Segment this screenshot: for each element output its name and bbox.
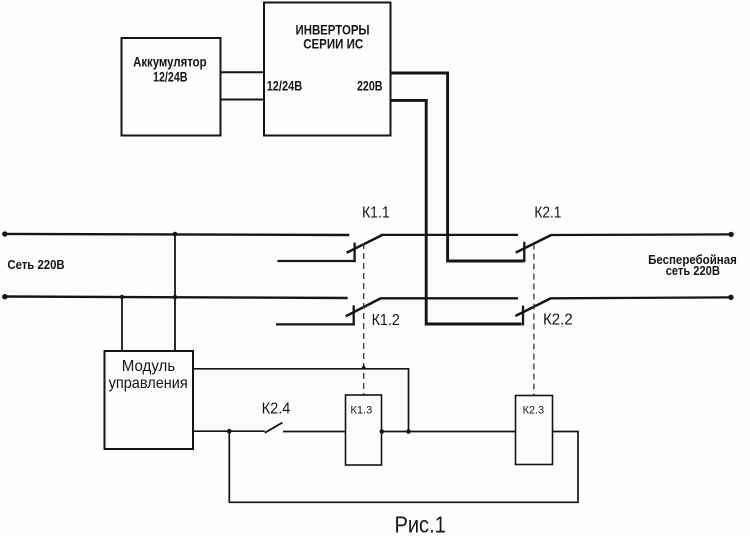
contact K2.2 moving arm xyxy=(515,298,550,316)
svg-text:Модуль: Модуль xyxy=(122,358,175,375)
wire net line bottom (Сеть 220В neutral) xyxy=(5,297,348,299)
node terminal right top xyxy=(728,232,733,237)
svg-text:Рис.1: Рис.1 xyxy=(395,511,446,536)
wire K2.1 output to right terminal xyxy=(551,233,731,236)
wire K1.1 output to K2.1 input xyxy=(381,234,519,236)
contact K2.1 moving arm xyxy=(516,235,552,253)
wire battery to inverter (top) xyxy=(221,71,265,73)
relay coil K1.3 xyxy=(346,395,382,465)
switch K2.4 arm xyxy=(265,423,283,433)
node arrowhead at dashed link crossing control wire xyxy=(361,365,367,370)
svg-text:К2.2: К2.2 xyxy=(543,311,573,328)
node junction K2.4 line to bottom loop xyxy=(227,429,232,434)
node junction at coil line xyxy=(406,429,411,434)
wire K2.4 to coil K1.3 xyxy=(283,431,346,433)
relay coil K2.3 xyxy=(516,396,553,465)
contact K1.2 lower fixed terminal xyxy=(276,305,355,325)
wire K1.2 output to K2.2 input xyxy=(381,297,519,299)
dashed mechanical link K2 contacts to coil K2.3 xyxy=(533,244,535,396)
node junction bottom line wire1 xyxy=(120,295,124,299)
svg-text:К1.1: К1.1 xyxy=(362,205,390,222)
module box Модуль управления xyxy=(105,351,194,449)
wire K2.2 output to right terminal xyxy=(551,296,732,299)
svg-text:К2.1: К2.1 xyxy=(534,205,561,222)
dashed mechanical link K1 contacts to coil K1.3 xyxy=(363,243,365,395)
contact K2.1 notch on thick feed xyxy=(523,242,525,262)
svg-text:сеть 220В: сеть 220В xyxy=(666,263,720,278)
svg-text:СЕРИИ ИС: СЕРИИ ИС xyxy=(303,37,363,52)
node junction at K1.3 right pin xyxy=(380,429,385,434)
battery box Аккумулятор 12/24В xyxy=(122,38,221,136)
contact K1.1 moving arm xyxy=(347,235,383,253)
svg-text:К1.2: К1.2 xyxy=(372,312,400,329)
node terminal left top xyxy=(2,231,7,236)
wire inverter 220V output 1 (thick, to K2.1) xyxy=(391,73,524,261)
svg-text:220В: 220В xyxy=(357,78,383,93)
node terminal left bottom xyxy=(2,294,7,299)
wire net line top (Сеть 220В phase) xyxy=(5,234,350,235)
wire coil K1.3 to coil K2.3 xyxy=(382,431,516,433)
svg-text:12/24В: 12/24В xyxy=(153,70,188,85)
wire bottom net line to module xyxy=(121,297,123,351)
svg-text:Аккумулятор: Аккумулятор xyxy=(133,55,207,70)
svg-text:управления: управления xyxy=(109,375,188,392)
wire inverter 220V output 2 (thick, to K2.2) xyxy=(391,100,522,324)
inverter box ИНВЕРТОРЫ СЕРИИ ИС xyxy=(264,3,391,136)
wire module output lower to K2.4 xyxy=(193,430,265,432)
contact K2.2 notch on thick feed xyxy=(522,306,524,326)
svg-text:ИНВЕРТОРЫ: ИНВЕРТОРЫ xyxy=(296,23,370,38)
svg-text:12/24В: 12/24В xyxy=(267,78,303,93)
wire module output upper xyxy=(193,369,409,432)
contact K1.1 lower fixed terminal xyxy=(278,243,356,263)
svg-text:К1.3: К1.3 xyxy=(350,404,372,416)
node terminal right bottom xyxy=(728,295,733,300)
wire battery to inverter (bottom) xyxy=(221,99,265,101)
svg-text:К2.3: К2.3 xyxy=(523,405,545,417)
contact K1.2 moving arm xyxy=(346,298,381,316)
wire return loop from K2.3 right pin to K2.4 branch xyxy=(229,431,578,502)
node junction top line to module xyxy=(173,232,178,237)
node junction bottom line wire2 xyxy=(173,295,178,300)
wire top net line to module xyxy=(174,234,176,351)
svg-text:Сеть 220В: Сеть 220В xyxy=(7,257,64,272)
svg-text:К2.4: К2.4 xyxy=(262,400,291,417)
